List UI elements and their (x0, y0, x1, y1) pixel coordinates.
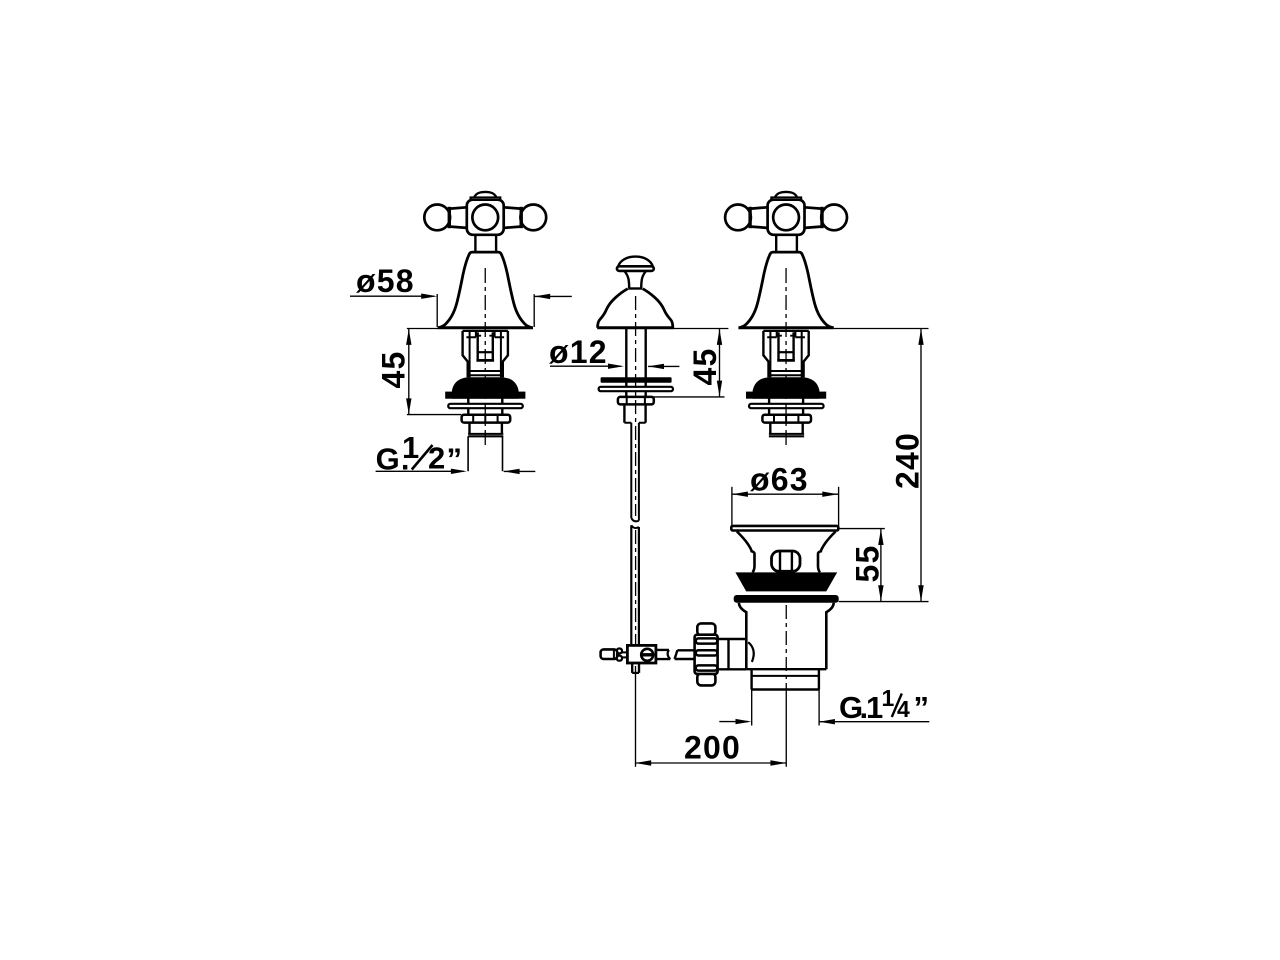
clamp screw (641, 649, 653, 661)
dimension: 45 left (407, 329, 461, 415)
svg-text:ø58: ø58 (356, 263, 415, 299)
G.1/2 arrowheads (451, 469, 467, 474)
right pillar tap (725, 192, 847, 447)
rod black washer (601, 377, 672, 382)
dimension: 240 (834, 329, 929, 602)
pull rod lower segment (631, 525, 639, 528)
pop-up knob dome (597, 257, 674, 646)
svg-text:1: 1 (402, 430, 420, 465)
svg-text:200: 200 (684, 730, 741, 766)
240 arrowheads (918, 329, 923, 345)
drain centerline (785, 605, 787, 692)
dimension: G.1 1/4" (719, 690, 929, 726)
overflow slot (772, 551, 801, 571)
pop-up escutcheon bell (598, 289, 628, 328)
45-left arrowheads (406, 329, 411, 345)
200 arrowheads (635, 760, 651, 765)
drain body (739, 603, 746, 669)
dimension: 45 middle (652, 329, 728, 397)
knob shaft and lever boss (718, 639, 747, 669)
svg-text:55: 55 (850, 545, 886, 583)
dimension: Ø58 (350, 294, 572, 327)
svg-text:ø12: ø12 (549, 334, 608, 370)
rod lower washer (599, 387, 673, 391)
rod clamp block (601, 645, 696, 673)
svg-text:4: 4 (897, 696, 911, 722)
rod nut (618, 397, 654, 405)
rod centerline (635, 296, 637, 516)
55 arrowheads (878, 529, 883, 545)
svg-text:ø63: ø63 (750, 462, 809, 498)
dimension: G.1/2" (376, 470, 536, 472)
pop-up waste drain (731, 526, 838, 692)
Ø63 arrowheads (732, 492, 748, 497)
pop-up rod upper (625, 328, 627, 397)
Ø12 arrowheads (608, 364, 624, 369)
drain cone seal (black) (735, 572, 837, 591)
left pillar tap (424, 192, 546, 447)
dimension: 200 (635, 666, 786, 767)
svg-text:”: ” (914, 690, 931, 725)
svg-text:2: 2 (428, 441, 446, 476)
drain outlet thread (750, 669, 752, 689)
pop-up knob neck (625, 271, 630, 288)
drain top flange (731, 526, 838, 531)
left tap inlet pipe (468, 436, 502, 471)
Ø58 arrowheads (421, 294, 437, 299)
rod threaded shank (623, 404, 625, 422)
clamp lower stem (631, 663, 633, 673)
svg-text:45: 45 (687, 348, 723, 386)
dimension: Ø12 (550, 365, 679, 367)
drain lower seal band (black) (734, 595, 839, 603)
svg-text:”: ” (447, 441, 464, 476)
drain waist (737, 532, 755, 573)
pull rod upper segment (630, 423, 632, 518)
svg-text:240: 240 (890, 432, 926, 489)
svg-text:45: 45 (376, 351, 412, 389)
45-middle arrowheads (717, 329, 722, 345)
spring clip (617, 649, 622, 654)
svg-text:1: 1 (882, 685, 896, 711)
knurled adjuster knob (695, 623, 754, 685)
G.1 1/4 arrowheads (736, 719, 752, 724)
horizontal lever rod left (601, 649, 618, 659)
dimension: 55 (839, 529, 885, 602)
horizontal lever rod right (broken) (656, 650, 670, 659)
dimension: Ø63 (732, 487, 839, 527)
